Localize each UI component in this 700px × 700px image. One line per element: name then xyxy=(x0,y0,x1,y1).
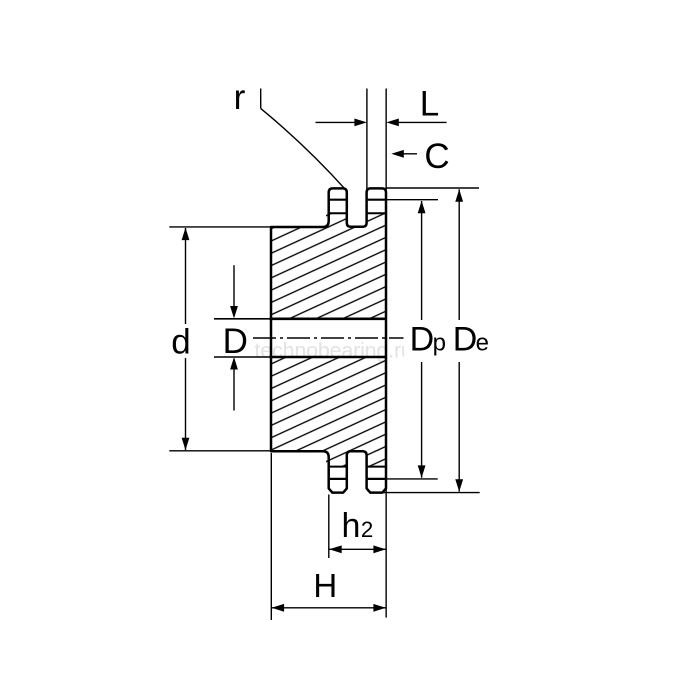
extension line h2 left xyxy=(328,495,330,559)
extension line Dp bottom xyxy=(386,478,438,480)
hatched hub section upper block xyxy=(271,227,386,319)
svg-text:h2: h2 xyxy=(342,507,374,545)
root line under top teeth xyxy=(329,212,347,214)
sprocket body outline with teeth xyxy=(271,188,386,492)
pitch line across bottom teeth xyxy=(329,478,347,480)
pitch line across top teeth xyxy=(329,199,347,201)
dimension line h2 xyxy=(329,548,386,550)
svg-text:C: C xyxy=(424,137,449,176)
dimension L right segment xyxy=(396,121,447,123)
svg-text:L: L xyxy=(420,85,439,124)
dimension L left segment xyxy=(316,121,357,123)
extension line De top xyxy=(386,187,479,189)
dimension arrow D top xyxy=(233,265,235,310)
hatched rim stub under top-left tooth xyxy=(326,213,347,227)
label d xyxy=(168,324,196,358)
label Dp xyxy=(404,320,447,362)
leader line r xyxy=(260,89,262,109)
dimension line De xyxy=(458,189,460,491)
dimension line d xyxy=(185,228,187,450)
hatched rim stub under top-right tooth xyxy=(367,213,386,227)
root line over bottom teeth xyxy=(329,466,347,468)
extension line top of hub (d) xyxy=(169,226,271,228)
extension line above right tooth left side xyxy=(366,89,368,191)
hatched hub section lower block xyxy=(271,357,386,451)
extension line bottom of hub (d) xyxy=(169,450,271,452)
dimension arrow C xyxy=(398,153,417,155)
bore top line xyxy=(214,318,271,320)
svg-text:H: H xyxy=(313,567,337,604)
svg-text:r: r xyxy=(234,78,246,117)
svg-text:d: d xyxy=(171,323,190,362)
bore bottom line xyxy=(214,356,271,358)
dimension arrow D bottom xyxy=(233,365,235,411)
hatched rim stub over bottom-left tooth xyxy=(326,451,347,467)
dimension line Dp xyxy=(421,201,423,478)
extension line De bottom xyxy=(383,492,480,494)
centerline of bore xyxy=(253,337,404,339)
label De xyxy=(448,320,489,362)
extension line Dp top xyxy=(386,199,438,201)
extension line H left xyxy=(270,453,272,620)
hatched rim stub over bottom-right tooth xyxy=(367,451,386,467)
svg-text:D: D xyxy=(223,322,248,361)
extension line right body edge vertical xyxy=(385,89,387,618)
dimension line H xyxy=(272,607,386,609)
